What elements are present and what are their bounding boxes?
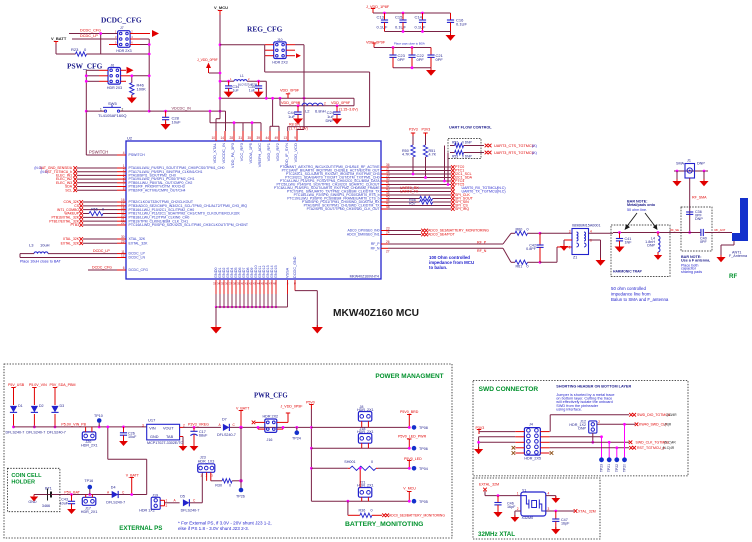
MCU right RF_N row [381,247,388,249]
svg-text:8: 8 [123,186,125,190]
lead C43 bottom [71,504,73,509]
power flag J_VDD_0P9F pwr [287,413,289,418]
svg-text:50 ohm controlled: 50 ohm controlled [611,286,646,291]
connector J7 HDR 2X3 [118,31,131,48]
svg-text:6: 6 [123,266,125,270]
pin stub J6 pin5 [99,80,108,82]
junction RTS row [447,183,450,186]
svg-text:PWR_CFG: PWR_CFG [254,393,288,400]
no-connect X right r7 [451,186,455,190]
svg-text:P5V_USB: P5V_USB [8,383,25,387]
callout arrow right [645,213,656,228]
wire pin drop 279 [278,126,280,131]
pin stub J23 pin3 [210,472,212,481]
pin stub J10 pin3 [265,49,274,51]
bank1 right vertical [450,13,452,20]
svg-text:P5V_SDA_PBM: P5V_SDA_PBM [50,383,76,387]
no-connect X xtal2 [79,241,83,245]
wire DCDC_GND down [316,291,318,327]
pin stub J21 pin2 [367,497,369,501]
lead C44 bottom [297,114,299,118]
svg-text:C15: C15 [395,15,403,20]
svg-text:TP10: TP10 [94,414,103,418]
svg-text:TAB: TAB [166,435,174,439]
svg-text:3: 3 [548,507,550,511]
lead C35 bottom [258,88,260,91]
MCU top pin VDCDC_IN [224,131,226,141]
svg-text:sharing pads: sharing pads [681,270,702,274]
svg-text:1: 1 [517,492,519,496]
wire L1 rail left [220,80,234,82]
junction battery monitor tap [347,500,350,503]
inductor L4 [658,236,660,252]
junction C47 [554,510,557,513]
power flag P5V0_LED_PWR [408,439,410,444]
svg-text:DNP: DNP [578,427,586,431]
svg-text:DFLS240-7: DFLS240-7 [106,500,125,504]
svg-text:HDR 2X2: HDR 2X2 [263,415,279,419]
svg-text:68uF: 68uF [199,433,208,437]
svg-text:D3: D3 [60,404,65,408]
resistor R60 [515,231,528,235]
lead C24 bottom [336,114,338,118]
wire RF_SE to C40 [688,232,700,234]
svg-text:L3: L3 [29,243,34,248]
resistor R36 [360,513,372,517]
wire monitor red [348,514,360,516]
MCU right pin row 13 (SPI_IRQ) [381,208,388,210]
no-connect X right r3 [451,172,455,176]
diode D1 [10,406,17,412]
svg-text:1uF: 1uF [288,114,295,119]
vertical TP a [601,437,603,458]
power flag J_VDD_0P9F [206,63,211,69]
svg-text:35: 35 [247,136,251,140]
svg-text:ADC0_SE4/POT: ADC0_SE4/POT [428,233,456,237]
svg-text:TP08: TP08 [419,426,428,430]
lead C35 [258,81,260,86]
capacitor C35 [255,85,262,87]
wire RF line balun to trap [589,232,614,234]
capacitor C22 [408,54,415,56]
svg-text:0.1UF: 0.1UF [395,25,406,30]
testpoint TP04 [412,466,417,471]
junction SMA left [676,170,679,173]
bus end vertical right [353,98,355,106]
svg-text:HDR 2X3: HDR 2X3 [272,60,287,64]
wire UART RTS drop [447,159,449,185]
svg-text:DCDC_CFG: DCDC_CFG [129,268,149,272]
capacitor C28 [162,116,169,118]
svg-text:EXTAL_32K: EXTAL_32K [129,241,149,245]
svg-text:UART0_TX: UART0_TX [400,190,419,194]
svg-text:V_BATT: V_BATT [126,473,140,477]
DNP caps dashed box [681,207,712,251]
no-connect X right r1 [451,165,455,169]
capacitor C23 [389,54,396,56]
svg-text:TP26: TP26 [236,494,245,498]
svg-text:0PF: 0PF [398,57,406,62]
power management dotted box [4,364,452,538]
MCU right pin row 5 (PTC4) [381,180,388,182]
svg-text:J_VDD_0P9F: J_VDD_0P9F [281,405,304,409]
svg-text:L2: L2 [305,109,310,114]
svg-text:44: 44 [265,136,269,140]
svg-text:100K: 100K [137,87,147,92]
power flag V_MCU pwr [408,492,410,497]
MCU top pin VDDA_1P5 [251,131,253,141]
branch3 wire left [311,467,348,469]
pin stub J10 pin6 [286,55,295,57]
balun Z1 coil left [577,232,579,241]
svg-text:RF_N: RF_N [371,246,380,250]
connector J23 [198,464,215,473]
wire L1 rail right down [265,81,267,98]
power bus main [14,426,147,428]
junction x149 VDCDC_IN [148,110,151,113]
junction C26 [122,426,125,429]
ground SMA left [672,181,681,186]
no-connect X right r9 [451,193,455,197]
MCU top pin VDD_RF2 [278,131,280,141]
connector J6 HDR 2X3 [108,68,121,85]
wire J10 pin5 down [264,56,266,72]
pin stub Y1 pin2 [515,510,521,512]
junction V_BATT bus [239,426,242,429]
wire P5.0V_VIN down [33,392,35,405]
wire MCU left group1 row 5 [77,182,117,184]
svg-text:UART FLOW CONTROL: UART FLOW CONTROL [449,126,492,130]
bank1 bottom wire [385,31,451,33]
svg-text:GND: GND [28,500,37,504]
callout arrow left [626,213,637,228]
drop right vertical [146,459,148,494]
power arrow DCDC right [152,30,159,37]
MCU left pin PTB17/LLWU_P11/I2C1_SDA/TPM2_CH1/CMT0_CLKOUT/ERCLK32K [117,212,126,214]
svg-text:49: 49 [274,136,278,140]
ground SMA right [699,181,708,186]
svg-text:VDD_VCO: VDD_VCO [293,143,298,162]
junction bus L1 rail [265,97,268,100]
ground C17 [190,446,199,451]
lead L4 top [657,233,659,237]
svg-text:3: 3 [142,424,144,428]
harmonic trap dashed box [611,225,670,277]
ground balun pin2 [560,246,568,251]
diode D4 [112,491,118,498]
ground U17 tab [179,446,188,451]
svg-text:0: 0 [371,508,373,512]
MCU left pin PTA19/LLWU_P6/SPI1_PCS0/TPM2_CH1 [117,178,126,180]
wire antenna gnd down [720,245,722,257]
power bus after U17 [183,426,221,428]
svg-text:impedance line from: impedance line from [611,292,651,297]
svg-text:TP21: TP21 [607,464,611,472]
UART flow control dashed box [448,139,481,159]
lead C42 bottom [539,247,541,262]
wire J6 left bus row2 [86,75,99,77]
junction PSW bus SW5 row [85,110,88,113]
wire seg 270-279 [270,125,279,127]
MCU right pin row 11 (SPI_SIN) [381,201,388,203]
wire D3 to bus [54,414,56,427]
no-connect X XTAL_32M [574,509,578,513]
svg-text:P3V3: P3V3 [422,128,431,132]
power arrow PSW right [127,67,134,74]
svg-text:VDCDC_IN: VDCDC_IN [172,106,192,110]
connector J17 [82,497,96,505]
svg-text:V_MCU: V_MCU [403,486,416,490]
no-connect X g2r2 [79,204,83,208]
svg-text:(N.C)4R: (N.C)4R [664,441,676,445]
svg-text:F_Antenna: F_Antenna [729,254,748,258]
junction bus left V_MCU [219,97,222,100]
wire TAB down [182,437,184,447]
pin stub J16 left2 [258,428,265,430]
svg-text:HOLDER: HOLDER [11,479,35,485]
lead C46 bottom [497,505,499,512]
lead C16 bottom [450,22,452,31]
svg-text:Balun to SMA and F_antenna: Balun to SMA and F_antenna [611,297,669,302]
svg-text:9: 9 [294,136,296,140]
ground bank1 [446,35,456,41]
MCU left pin EXTAL_32K [117,242,126,244]
svg-text:(N3/4R: (N3/4R [667,413,678,417]
svg-text:PTB2/RF_ACTIVE/CMP0_OUT/CH4: PTB2/RF_ACTIVE/CMP0_OUT/CH4 [129,188,186,192]
wire x272 vertical [272,98,274,126]
svg-text:2: 2 [517,507,519,511]
MCU right pin row 8 (UART0_TX_TGTMCU) [381,191,388,193]
testpoint swd 1 [599,457,604,462]
svg-text:1NF: 1NF [625,241,633,245]
svg-text:R23: R23 [71,47,79,52]
svg-text:PTC16/LLWU_P0/SPI0_SCK/I2C0_SC: PTC16/LLWU_P0/SPI0_SCK/I2C0_SCL/TPM0_CH3… [129,223,249,227]
svg-text:J16: J16 [267,438,273,442]
svg-text:PSW_CFG: PSW_CFG [67,62,103,71]
svg-text:0.1UF: 0.1UF [415,25,426,30]
lead L4 bottom [657,252,659,255]
svg-text:VSSA: VSSA [286,267,290,278]
MCU right ADC row 2 [381,234,388,236]
capacitor C34 [225,85,232,87]
svg-text:0PF: 0PF [436,57,444,62]
pin stub J6 pin2 [121,69,127,71]
svg-text:EXTAL_32K: EXTAL_32K [61,241,80,245]
wire SMA left gnd stem [676,171,678,181]
testpoint TP05 [412,499,417,504]
svg-text:DFLS240-7: DFLS240-7 [26,430,45,434]
ground C26 [119,441,128,446]
svg-text:DCDC_CFG: DCDC_CFG [92,266,112,270]
wire V_BATT down to bus [240,415,242,427]
junction bank1 bottom1 [402,30,405,33]
SWD connector dotted box [473,381,688,476]
wire RF_N diagonal [503,248,511,262]
wire V_BATT to R23 [56,53,76,55]
svg-text:HDR_2X5: HDR_2X5 [524,457,541,461]
MCU top pin VCC_RF3 [242,131,244,141]
svg-text:D1: D1 [18,404,23,408]
junction SMA right [703,170,706,173]
junction x272 bus [271,97,274,100]
MCU bottom pin DCDC_GND [294,280,296,291]
svg-text:4.7K: 4.7K [402,153,410,157]
capacitor C43 [68,500,75,502]
svg-text:MKW40Z160VHT4: MKW40Z160VHT4 [350,275,379,279]
ground Y1 pin2 [511,517,520,522]
wire EXTAL down [484,491,486,496]
ground MCU bottom left [210,327,221,333]
wire monitor red2 [372,514,382,516]
junction TP10 [98,426,101,429]
junction R46 top [130,74,133,77]
svg-text:J7: J7 [120,26,124,30]
MCU top pin VDD_IF_SYN [287,131,289,141]
svg-text:RF: RF [729,273,737,280]
no-connect X g2r5 [79,216,83,220]
svg-text:TP24: TP24 [292,436,301,440]
testpoint swd 4 [622,457,627,462]
svg-text:J_VDD_0P9F: J_VDD_0P9F [197,58,218,62]
junction bottom pin 13 [263,306,265,308]
wire balun pin1 vertical [556,247,558,262]
power flag P5V0 [310,405,312,410]
MCU top pin VREFH_ADC [260,131,262,141]
wire MCU left group1 row 1 [77,167,117,169]
lead C44 [297,106,299,112]
svg-text:1: 1 [166,498,168,502]
pin stub J20 pin1 [85,427,87,432]
junction R30 V_BATT [239,479,242,482]
svg-text:3466: 3466 [42,504,50,508]
vertical TP b [608,442,610,457]
connector J21 [358,488,371,498]
MCU right pin row 12 (SPI_CS) [381,205,388,207]
wire X to J16 [255,421,265,423]
testpoint TP24 [295,430,300,435]
wire rail left vertical [279,98,281,106]
MCU top pin VDD_RF1 [269,131,271,141]
junction C22 top [411,46,414,49]
junction bottom pin 10 [251,306,253,308]
svg-text:U2: U2 [127,136,133,141]
svg-text:VDD_PA_3P3: VDD_PA_3P3 [230,142,235,168]
svg-text:VDD_XTAL: VDD_XTAL [212,142,217,163]
junction TP08 [408,426,411,429]
pin stub J10 pin4 [286,49,295,51]
wire J_VDD horizontal top [265,71,370,73]
pin stub J11 right row 3 [540,441,549,443]
MCU top pin VDD_XTAL [215,131,217,141]
branch1 wire [311,426,409,428]
wire J10 left vertical [264,45,266,56]
svg-text:16pF: 16pF [561,522,570,526]
resistor R46 [130,83,134,95]
svg-text:Place caps close to BGA: Place caps close to BGA [394,42,425,46]
svg-text:SW5: SW5 [108,101,117,106]
lead C26 bottom [123,435,125,441]
capacitor C47 [552,518,559,520]
MCU left pin PTB2/RF_ACTIVE/CMP0_OUT/CH4 [117,189,126,191]
stem TP24 [296,427,298,432]
wire D5 to J23 [190,502,203,504]
lead C21 top [430,48,432,56]
no-connect X g1r6 [73,185,77,189]
capacitor C14 [419,19,426,21]
svg-text:R52: R52 [452,141,458,145]
svg-text:22: 22 [121,221,125,225]
bus bottom gnd [216,306,288,308]
wire MCU left xtal row 1 [83,238,117,240]
power flag P5V_USB [13,388,15,393]
svg-text:VDD_RF1: VDD_RF1 [266,142,271,161]
rail VDD_0P9F low [280,105,354,107]
svg-text:R61: R61 [516,265,523,269]
svg-text:UART3_RTS_TGTMCU: UART3_RTS_TGTMCU [494,151,535,155]
MCU left pin DCDC_LN [117,257,126,259]
wire MCU left group2 row 4 [83,212,89,214]
pin stub J16 right2 [277,428,283,430]
junction bottom pin 5 [231,306,233,308]
junction x304 on 0P9 bus [303,97,306,100]
junction pillar bus [310,426,313,429]
svg-text:DFLS240-7: DFLS240-7 [217,433,236,437]
wire MCU left group1 row 4 [77,178,117,180]
MCU left pin PTA17/LLWU_P5/SPI1_SIN/TPM_CLKIN1/CH1 [117,171,126,173]
svg-text:2: 2 [598,420,600,424]
junction PSW bus row2 [85,74,88,77]
svg-text:0: 0 [527,228,529,232]
svg-text:MCP1702T-3302E/TO: MCP1702T-3302E/TO [147,441,184,445]
MCU left pin PSWITCH [117,154,126,156]
svg-text:V_BATT: V_BATT [51,36,67,41]
svg-text:DFLS240-7: DFLS240-7 [47,430,66,434]
lead C21 bottom [430,57,432,67]
svg-text:(N.C): (N.C) [497,190,506,194]
junction J21 branch3 [359,467,362,470]
battery BT1 [47,489,49,501]
svg-text:39: 39 [256,136,260,140]
svg-text:EXTAL_32M: EXTAL_32M [479,483,499,487]
MCU right pin row 7 (UART0_RX_TGTMCU) [381,187,388,189]
capacitor C36 [686,211,693,213]
svg-text:P5V0_BRD: P5V0_BRD [400,410,419,414]
pin stub J17 pin1 [85,495,87,498]
svg-text:DFLS240-7: DFLS240-7 [6,430,25,434]
no-connect X row3 [629,441,633,445]
junction D2 bus [33,426,36,429]
wire MCU left xtal row 2 [83,242,117,244]
svg-text:Metal/pads onto: Metal/pads onto [627,203,656,207]
svg-text:P3V3: P3V3 [409,128,418,132]
wire top pin drop 2 [242,123,244,131]
MCU right pin row 2 (PTC1) [381,170,388,172]
svg-text:D5: D5 [180,494,185,498]
wire vertical x149 DCDC to VDCDC_IN [148,39,150,111]
connector J8 [358,412,371,422]
crystal Y1 body [521,492,546,516]
svg-text:12: 12 [121,254,125,258]
branch2 wire [311,447,409,449]
svg-text:TP16: TP16 [84,479,93,483]
wire pin1 drop [215,119,217,131]
wire PSW left vertical bus [85,70,87,155]
MCU left pin XTAL_32K [117,238,126,240]
wire RF_N to balun corner [540,261,557,263]
resistor R61 [515,260,528,264]
power flag P5.0V_VIN [33,388,35,393]
junction J16 right bus [282,426,285,429]
